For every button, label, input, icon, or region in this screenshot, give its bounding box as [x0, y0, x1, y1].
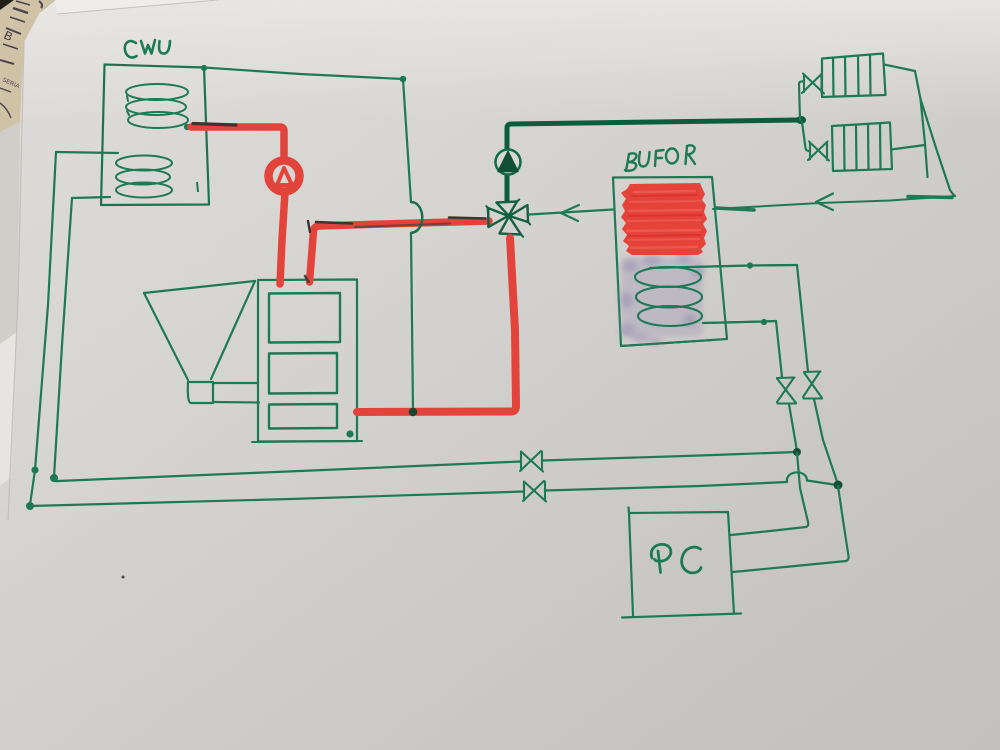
wire: coil bottom to V3 riser: [703, 321, 776, 323]
node B blob: [51, 475, 57, 481]
boiler door 1: [269, 293, 340, 343]
red pipe: valve bottom down and left to boiler side: [357, 238, 516, 412]
wire: BUFOR left to mixing valve: [529, 210, 613, 215]
radiator R1: [822, 54, 886, 98]
PC label: [651, 544, 701, 572]
radiator valve 2: [808, 142, 829, 161]
CWU lower coil: [116, 156, 172, 198]
wire: left riser A down: [30, 152, 56, 505]
green coil over purple: [621, 265, 797, 346]
wire: PC to junction 2: [733, 486, 849, 572]
radiator valve 1: [802, 74, 824, 94]
pump P1: [496, 150, 521, 175]
main paper edge line: [8, 42, 24, 520]
BUFOR label: [625, 145, 695, 171]
wire: PC to junction 1 (under hop): [731, 453, 808, 535]
CWU label: [125, 40, 170, 57]
wire: CWU coil top to left riser: [56, 152, 118, 153]
node A blob: [33, 468, 38, 473]
feeder duct: [213, 383, 259, 403]
dark photo corner: [0, 0, 14, 10]
red pump on CWU line: [269, 161, 300, 192]
underlying beige document top-left: [0, 0, 55, 132]
black pen marks on red pipes: [193, 124, 485, 282]
valve on line 2: [523, 481, 546, 502]
hop over PC riser: [787, 472, 807, 482]
node: left end blobs: [26, 502, 34, 510]
wire: coil top line to V4 riser: [650, 265, 797, 268]
wire: top horizontal CWU to centre riser: [204, 68, 403, 80]
feeder hopper: [144, 281, 255, 293]
wire: R2 return: [891, 145, 925, 150]
wire: R1 return right side: [884, 65, 928, 178]
arrow to valve: [561, 205, 579, 221]
CWU upper coil: [126, 84, 188, 128]
boiler door 3: [269, 404, 337, 429]
wire: hop redrawn over red pipe: [411, 202, 422, 233]
valve on line 1: [520, 451, 543, 472]
red pipe: CWU coil to pump: [191, 127, 284, 156]
node: radiator branch junction: [796, 116, 806, 124]
arrow on return: [816, 194, 833, 211]
red pipe: valve left port to boiler top: [310, 221, 490, 282]
bright sheet strip along top: [55, 0, 218, 14]
valve V3: [777, 378, 796, 404]
wire: long line 2 (lower): [30, 492, 524, 507]
boiler outer box: [258, 280, 357, 442]
feeder outlet box: [188, 382, 213, 403]
wire: branch up to radiator 1 valve: [799, 81, 804, 120]
node: junction line1/PC riser: [793, 448, 801, 456]
PC controller box: [629, 512, 734, 616]
BUFOR red scribble: [621, 183, 707, 255]
green junction dot on red pipe: [409, 408, 417, 416]
node: junction on red pipe: [409, 408, 417, 416]
valve left bar over red: [487, 208, 490, 227]
BUFOR tank box: [613, 177, 727, 346]
node: junction line2 / V4 line / PC riser 2: [834, 481, 843, 490]
mixing valve 4-way: [486, 200, 530, 237]
wire: thick supply from pump corner to radiators: [507, 120, 799, 201]
wire: radiator return to BUFOR right: [713, 196, 955, 209]
BUFOR red core drawn later; green coil inside BUFOR: [635, 267, 702, 326]
red pipe: pump down to boiler: [280, 192, 285, 284]
tick inside CWU right edge: [197, 182, 198, 192]
wire: long line 1 (upper): [58, 462, 521, 482]
wire: left riser B down: [54, 198, 72, 481]
boiler door 2: [269, 353, 337, 394]
dark pen under-edge of red pipe: [355, 224, 450, 228]
radiator R2: [832, 123, 892, 172]
white sheet sliver left edge: [0, 122, 20, 344]
CWU tank box: [101, 65, 209, 206]
wire: centre riser with hop over red pipe: [403, 79, 422, 411]
node top corner: [202, 66, 206, 70]
speck: [122, 576, 125, 579]
wire: V4 riser down: [797, 265, 808, 372]
wire: CWU coil bottom stub: [72, 197, 110, 198]
wire: branch down to radiator 2 valve: [802, 122, 810, 151]
wire: V3 riser down: [776, 321, 782, 377]
valve V4: [803, 372, 822, 399]
